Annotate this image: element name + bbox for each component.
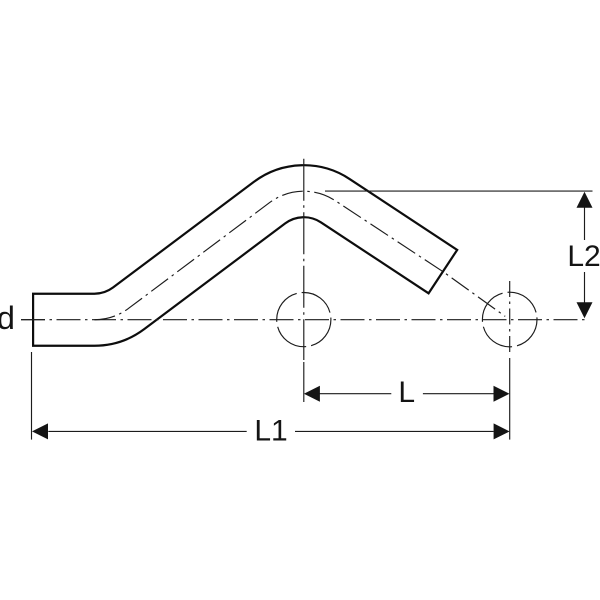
svg-text:L2: L2	[567, 240, 600, 273]
svg-text:L: L	[398, 376, 415, 409]
svg-text:d: d	[0, 300, 15, 336]
svg-text:L1: L1	[254, 415, 287, 448]
